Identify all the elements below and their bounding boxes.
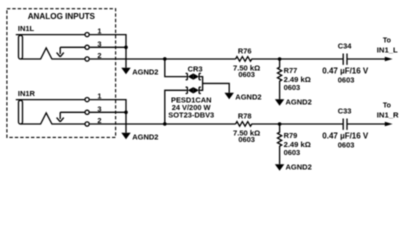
- svg-text:SOT23-DBV3: SOT23-DBV3: [168, 111, 214, 120]
- svg-text:CR3: CR3: [188, 64, 203, 73]
- svg-text:1: 1: [97, 27, 101, 36]
- svg-text:AGND2: AGND2: [286, 163, 312, 172]
- svg-text:IN1_R: IN1_R: [377, 110, 399, 119]
- svg-text:0.47 µF/16 V: 0.47 µF/16 V: [322, 132, 369, 141]
- svg-text:0603: 0603: [338, 75, 355, 84]
- svg-text:To: To: [383, 103, 391, 110]
- svg-text:3: 3: [97, 104, 101, 113]
- svg-text:C33: C33: [338, 106, 352, 115]
- svg-text:0603: 0603: [284, 148, 301, 157]
- svg-text:2: 2: [97, 116, 101, 125]
- svg-text:2: 2: [97, 51, 101, 60]
- svg-text:ANALOG INPUTS: ANALOG INPUTS: [28, 12, 96, 21]
- svg-text:AGND2: AGND2: [286, 97, 312, 106]
- svg-text:AGND2: AGND2: [132, 132, 158, 141]
- svg-text:IN1_L: IN1_L: [377, 45, 398, 54]
- svg-text:IN1L: IN1L: [18, 24, 35, 33]
- svg-text:0603: 0603: [338, 140, 355, 149]
- svg-text:0.47 µF/16 V: 0.47 µF/16 V: [322, 67, 369, 76]
- svg-text:1: 1: [97, 92, 101, 101]
- svg-text:0603: 0603: [238, 135, 255, 144]
- svg-text:0603: 0603: [238, 70, 255, 79]
- svg-text:R76: R76: [238, 47, 252, 56]
- svg-text:0603: 0603: [284, 83, 301, 92]
- svg-text:C34: C34: [338, 41, 353, 50]
- svg-text:To: To: [383, 38, 391, 45]
- svg-text:AGND2: AGND2: [235, 93, 261, 102]
- svg-text:R78: R78: [238, 112, 252, 121]
- svg-text:3: 3: [97, 39, 101, 48]
- svg-text:AGND2: AGND2: [132, 67, 158, 76]
- svg-text:IN1R: IN1R: [18, 89, 36, 98]
